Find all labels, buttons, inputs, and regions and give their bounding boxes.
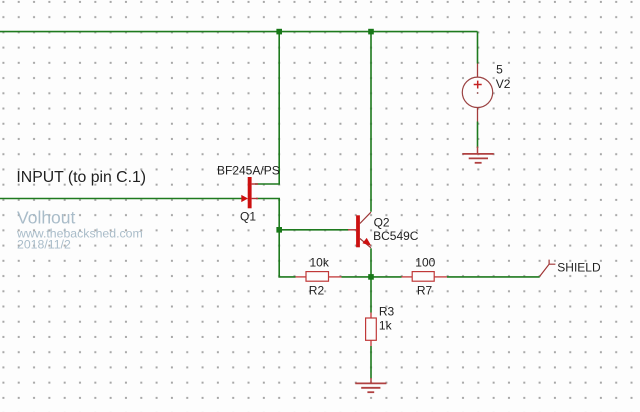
- wire node to R3: [370, 277, 372, 313]
- wire Q2 emitter drop: [370, 248, 372, 277]
- wire V2 to ground: [477, 122, 479, 149]
- resistor R7 100: [402, 272, 448, 282]
- node SHIELD flag: [540, 260, 556, 277]
- svg-text:BC549C: BC549C: [373, 229, 419, 243]
- wire V2 top drop: [477, 32, 479, 64]
- junction node top-left: [276, 29, 282, 35]
- svg-text:R7: R7: [417, 284, 433, 298]
- resistor R3 1k: [366, 313, 377, 347]
- voltage source V2: [462, 64, 492, 122]
- wire R2 to node: [342, 276, 372, 278]
- wire node to R7: [371, 276, 402, 278]
- svg-text:100: 100: [415, 256, 435, 270]
- ground under R3: [355, 378, 386, 392]
- wire node to R2: [279, 230, 295, 277]
- wire Q1 source to node: [256, 199, 279, 230]
- svg-text:R2: R2: [309, 284, 325, 298]
- svg-text:10k: 10k: [310, 256, 330, 270]
- ground under V2: [462, 147, 493, 163]
- svg-text:5: 5: [496, 62, 503, 76]
- svg-text:SHIELD: SHIELD: [557, 261, 601, 275]
- svg-text:INPUT (to pin C.1): INPUT (to pin C.1): [16, 169, 146, 186]
- transistor Q1 JFET BF245A/PS: [241, 177, 258, 208]
- svg-text:V2: V2: [496, 77, 511, 91]
- wire Q2 collector riser: [370, 32, 372, 212]
- wire gate input: [0, 198, 243, 200]
- svg-text:BF245A/PS: BF245A/PS: [217, 164, 280, 178]
- svg-text:R3: R3: [379, 304, 395, 318]
- svg-text:Q1: Q1: [240, 209, 256, 223]
- wire R7 to SHIELD: [447, 276, 540, 278]
- junction node top-right: [368, 29, 374, 35]
- svg-text:2018/11/2: 2018/11/2: [17, 237, 71, 251]
- svg-text:Q2: Q2: [374, 216, 390, 230]
- junction node base: [276, 227, 282, 233]
- wire Q1 drain riser: [255, 32, 279, 184]
- svg-text:Volhout: Volhout: [17, 208, 76, 228]
- wire top rail: [0, 31, 478, 33]
- wire Q2 base: [279, 229, 348, 231]
- transistor Q2 NPN BC549C: [348, 212, 371, 248]
- wire R3 to ground: [370, 346, 372, 379]
- svg-text:1k: 1k: [379, 318, 393, 332]
- resistor R2 10k: [296, 272, 342, 282]
- junction node emitter: [368, 274, 374, 280]
